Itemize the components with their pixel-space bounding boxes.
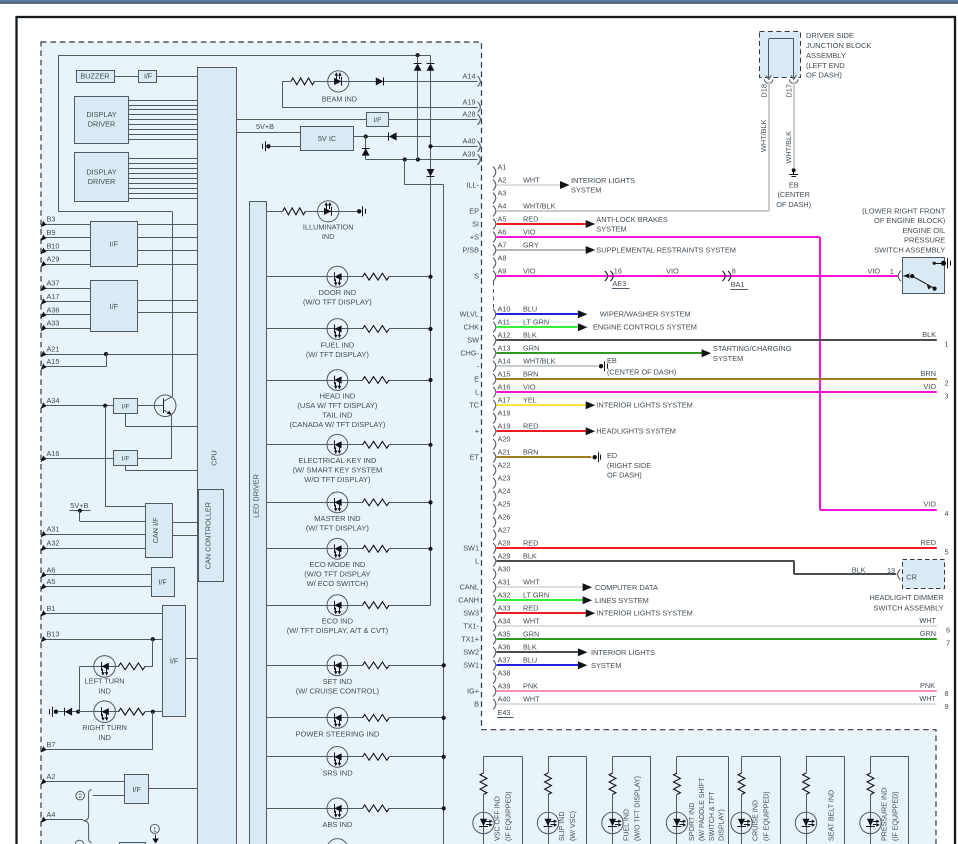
svg-text:A30: A30 bbox=[498, 565, 511, 574]
svg-text:WHT/BLK: WHT/BLK bbox=[759, 119, 768, 152]
svg-text:SWITCH & TFT: SWITCH & TFT bbox=[708, 791, 716, 841]
svg-text:DISPLAY: DISPLAY bbox=[86, 168, 116, 177]
svg-text:BLK: BLK bbox=[523, 643, 537, 652]
svg-text:CHK: CHK bbox=[464, 323, 480, 332]
svg-text:(W/ TFT DISPLAY): (W/ TFT DISPLAY) bbox=[306, 523, 369, 532]
svg-text:B9: B9 bbox=[47, 228, 56, 237]
svg-text:WHT/BLK: WHT/BLK bbox=[523, 357, 556, 366]
svg-text:TC: TC bbox=[469, 401, 479, 410]
svg-text:RED: RED bbox=[523, 422, 538, 431]
svg-text:WHT: WHT bbox=[523, 175, 540, 184]
svg-text:8: 8 bbox=[945, 689, 949, 698]
svg-text:DRIVER: DRIVER bbox=[88, 120, 116, 129]
svg-text:1: 1 bbox=[890, 267, 894, 276]
svg-text:SWITCH ASSEMBLY: SWITCH ASSEMBLY bbox=[874, 603, 944, 612]
svg-text:WHT: WHT bbox=[919, 616, 936, 625]
svg-text:SYSTEM: SYSTEM bbox=[571, 186, 601, 195]
svg-text:A31: A31 bbox=[498, 578, 511, 587]
svg-text:RED: RED bbox=[921, 538, 936, 547]
svg-text:DISPLAY: DISPLAY bbox=[86, 110, 116, 119]
svg-text:D17: D17 bbox=[784, 84, 793, 97]
svg-text:I/F: I/F bbox=[144, 74, 152, 81]
svg-text:PRESSURE IND: PRESSURE IND bbox=[881, 788, 889, 841]
svg-text:(CENTER: (CENTER bbox=[777, 190, 809, 199]
svg-text:CHG-: CHG- bbox=[460, 349, 479, 358]
svg-text:BRN: BRN bbox=[523, 370, 538, 379]
svg-text:GRN: GRN bbox=[920, 629, 936, 638]
svg-text:A21: A21 bbox=[47, 345, 60, 354]
svg-text:A4: A4 bbox=[47, 810, 56, 819]
svg-text:A29: A29 bbox=[498, 552, 511, 561]
svg-text:SW1: SW1 bbox=[463, 661, 479, 670]
svg-text:CANL: CANL bbox=[460, 583, 479, 592]
svg-text:LT GRN: LT GRN bbox=[523, 318, 549, 327]
svg-text:JUNCTION BLOCK: JUNCTION BLOCK bbox=[806, 41, 871, 50]
svg-text:13: 13 bbox=[887, 566, 895, 575]
svg-text:SRS IND: SRS IND bbox=[322, 768, 353, 777]
svg-text:I/F: I/F bbox=[110, 239, 119, 248]
svg-text:I/F: I/F bbox=[110, 302, 119, 311]
svg-text:ECO IND: ECO IND bbox=[322, 617, 354, 626]
svg-text:4: 4 bbox=[945, 509, 949, 518]
svg-text:BLK: BLK bbox=[523, 331, 537, 340]
svg-text:A18: A18 bbox=[498, 409, 511, 418]
svg-text:A7: A7 bbox=[498, 240, 507, 249]
svg-text:BLK: BLK bbox=[523, 552, 537, 561]
svg-text:MASTER IND: MASTER IND bbox=[314, 514, 361, 523]
svg-text:ED: ED bbox=[607, 451, 617, 460]
svg-text:CRUISE IND: CRUISE IND bbox=[752, 800, 760, 841]
svg-text:ILL-: ILL- bbox=[466, 180, 479, 189]
svg-text:A6: A6 bbox=[47, 565, 56, 574]
svg-text:VIO: VIO bbox=[868, 267, 881, 276]
svg-text:(W/ CRUISE CONTROL): (W/ CRUISE CONTROL) bbox=[296, 686, 380, 695]
svg-text:BLK: BLK bbox=[852, 565, 866, 574]
svg-text:A5: A5 bbox=[47, 577, 56, 586]
svg-text:(W/O TFT DISPLAY): (W/O TFT DISPLAY) bbox=[303, 298, 372, 307]
svg-text:LT GRN: LT GRN bbox=[523, 591, 549, 600]
svg-text:A29: A29 bbox=[47, 255, 60, 264]
svg-text:SLIP IND: SLIP IND bbox=[558, 812, 566, 841]
svg-text:I/F: I/F bbox=[122, 456, 130, 463]
svg-text:CAN I/F: CAN I/F bbox=[151, 517, 160, 543]
svg-text:INTERIOR LIGHTS SYSTEM: INTERIOR LIGHTS SYSTEM bbox=[596, 609, 693, 618]
svg-text:5V+B: 5V+B bbox=[70, 501, 88, 510]
svg-text:A32: A32 bbox=[47, 539, 60, 548]
svg-text:2: 2 bbox=[945, 379, 949, 388]
svg-text:GRY: GRY bbox=[523, 240, 539, 249]
svg-text:WHT/BLK: WHT/BLK bbox=[523, 201, 556, 210]
svg-text:SYSTEM: SYSTEM bbox=[596, 225, 626, 234]
svg-text:PRESSURE: PRESSURE bbox=[904, 236, 945, 245]
svg-text:A17: A17 bbox=[498, 396, 511, 405]
svg-text:A19: A19 bbox=[498, 422, 511, 431]
svg-text:I/F: I/F bbox=[132, 785, 141, 794]
svg-text:A28: A28 bbox=[463, 110, 476, 119]
svg-text:WHT: WHT bbox=[919, 694, 936, 703]
svg-text:GRN: GRN bbox=[523, 344, 539, 353]
svg-text:A15: A15 bbox=[498, 370, 511, 379]
svg-text:D18: D18 bbox=[759, 84, 768, 97]
svg-text:2: 2 bbox=[78, 793, 82, 800]
svg-text:FUEL IND: FUEL IND bbox=[623, 809, 631, 841]
svg-text:WLVL: WLVL bbox=[460, 310, 479, 319]
svg-text:B: B bbox=[474, 700, 479, 709]
svg-text:INTERIOR LIGHTS SYSTEM: INTERIOR LIGHTS SYSTEM bbox=[596, 401, 693, 410]
svg-text:P/SB: P/SB bbox=[462, 245, 479, 254]
svg-text:IG+: IG+ bbox=[467, 687, 479, 696]
svg-text:GRN: GRN bbox=[523, 630, 539, 639]
svg-text:1: 1 bbox=[153, 826, 157, 833]
svg-text:I/F: I/F bbox=[158, 577, 167, 586]
svg-text:A2: A2 bbox=[498, 175, 507, 184]
svg-text:ILLUMINATION: ILLUMINATION bbox=[303, 223, 354, 232]
svg-text:W/O TFT DISPLAY): W/O TFT DISPLAY) bbox=[304, 475, 371, 484]
svg-text:BLU: BLU bbox=[523, 656, 537, 665]
svg-text:A34: A34 bbox=[47, 396, 60, 405]
svg-text:RIGHT TURN: RIGHT TURN bbox=[82, 723, 127, 732]
svg-text:A24: A24 bbox=[498, 487, 511, 496]
svg-text:TAIL IND: TAIL IND bbox=[322, 410, 353, 419]
svg-text:+S: +S bbox=[470, 232, 479, 241]
svg-text:E: E bbox=[474, 375, 479, 384]
svg-text:A39: A39 bbox=[498, 682, 511, 691]
svg-text:SI: SI bbox=[472, 219, 479, 228]
svg-text:COMPUTER DATA: COMPUTER DATA bbox=[595, 583, 658, 592]
svg-text:INTERIOR LIGHTS: INTERIOR LIGHTS bbox=[571, 176, 635, 185]
svg-text:SW3: SW3 bbox=[463, 609, 479, 618]
svg-text:S: S bbox=[474, 271, 479, 280]
svg-text:A9: A9 bbox=[498, 266, 507, 275]
svg-text:POWER STEERING IND: POWER STEERING IND bbox=[296, 729, 380, 738]
svg-text:OF DASH): OF DASH) bbox=[806, 71, 842, 80]
svg-text:L: L bbox=[475, 388, 479, 397]
svg-text:PNK: PNK bbox=[920, 681, 935, 690]
svg-text:WHT: WHT bbox=[523, 695, 540, 704]
svg-text:CPU: CPU bbox=[210, 450, 219, 465]
svg-text:IND: IND bbox=[98, 733, 111, 742]
svg-text:(IF EQUIPPED): (IF EQUIPPED) bbox=[892, 791, 900, 841]
svg-text:A8: A8 bbox=[498, 253, 507, 262]
svg-text:CAN CONTROLLER: CAN CONTROLLER bbox=[203, 502, 212, 569]
svg-text:RED: RED bbox=[523, 604, 538, 613]
svg-text:OF DASH): OF DASH) bbox=[607, 470, 642, 479]
svg-text:A6: A6 bbox=[498, 227, 507, 236]
svg-text:SUPPLEMENTAL RESTRAINTS SYSTEM: SUPPLEMENTAL RESTRAINTS SYSTEM bbox=[596, 245, 736, 254]
svg-text:ET: ET bbox=[470, 453, 480, 462]
svg-text:(LEFT END: (LEFT END bbox=[806, 61, 845, 70]
svg-text:ASSEMBLY: ASSEMBLY bbox=[806, 51, 846, 60]
svg-text:A33: A33 bbox=[498, 604, 511, 613]
svg-text:FUEL IND: FUEL IND bbox=[320, 340, 354, 349]
svg-text:ABS IND: ABS IND bbox=[322, 820, 353, 829]
svg-text:W/ ECO SWITCH): W/ ECO SWITCH) bbox=[307, 579, 369, 588]
svg-text:A2: A2 bbox=[47, 772, 56, 781]
svg-text:A14: A14 bbox=[498, 357, 511, 366]
svg-text:ENGINE OIL: ENGINE OIL bbox=[902, 226, 945, 235]
svg-text:A36: A36 bbox=[498, 643, 511, 652]
svg-text:OF DASH): OF DASH) bbox=[776, 200, 811, 209]
svg-text:A28: A28 bbox=[498, 539, 511, 548]
svg-text:EB: EB bbox=[789, 181, 799, 190]
svg-text:A20: A20 bbox=[498, 435, 511, 444]
svg-text:LEFT TURN: LEFT TURN bbox=[85, 676, 125, 685]
svg-text:A13: A13 bbox=[498, 344, 511, 353]
svg-text:(W/ SMART KEY SYSTEM: (W/ SMART KEY SYSTEM bbox=[293, 466, 383, 475]
svg-text:YEL: YEL bbox=[523, 396, 537, 405]
svg-text:OF ENGINE BLOCK): OF ENGINE BLOCK) bbox=[874, 216, 946, 225]
svg-text:WHT/BLK: WHT/BLK bbox=[784, 131, 793, 164]
svg-text:CR: CR bbox=[906, 573, 917, 582]
svg-text:LED DRIVER: LED DRIVER bbox=[251, 474, 260, 518]
svg-text:BEAM IND: BEAM IND bbox=[322, 95, 357, 104]
svg-text:B13: B13 bbox=[47, 630, 60, 639]
svg-text:A5: A5 bbox=[498, 214, 507, 223]
svg-text:1: 1 bbox=[945, 340, 949, 349]
svg-text:RED: RED bbox=[523, 214, 538, 223]
svg-text:ECO MODE IND: ECO MODE IND bbox=[309, 560, 365, 569]
svg-text:SPORT IND: SPORT IND bbox=[688, 803, 696, 841]
svg-text:VIO: VIO bbox=[523, 227, 536, 236]
svg-text:BLK: BLK bbox=[922, 330, 936, 339]
svg-text:B3: B3 bbox=[47, 215, 56, 224]
svg-text:L: L bbox=[475, 557, 479, 566]
svg-text:16: 16 bbox=[614, 266, 622, 275]
svg-text:A37: A37 bbox=[498, 656, 511, 665]
svg-text:7: 7 bbox=[946, 639, 950, 648]
svg-text:VIO: VIO bbox=[923, 499, 936, 508]
svg-text:A36: A36 bbox=[47, 305, 60, 314]
svg-text:INTERIOR LIGHTS: INTERIOR LIGHTS bbox=[591, 648, 655, 657]
svg-text:A12: A12 bbox=[498, 331, 511, 340]
svg-text:DISPLAY): DISPLAY) bbox=[718, 809, 726, 841]
svg-text:(LOWER RIGHT FRONT: (LOWER RIGHT FRONT bbox=[862, 206, 946, 215]
svg-text:+: + bbox=[475, 427, 479, 436]
svg-text:8: 8 bbox=[732, 266, 736, 275]
svg-text:A22: A22 bbox=[498, 461, 511, 470]
svg-text:A1: A1 bbox=[498, 162, 507, 171]
svg-text:A31: A31 bbox=[47, 525, 60, 534]
svg-text:RED: RED bbox=[523, 539, 538, 548]
svg-text:VIO: VIO bbox=[523, 383, 536, 392]
svg-text:(IF EQUIPPED): (IF EQUIPPED) bbox=[505, 791, 513, 841]
svg-text:(W/ TFT DISPLAY, A/T & CVT): (W/ TFT DISPLAY, A/T & CVT) bbox=[287, 626, 389, 635]
svg-text:A4: A4 bbox=[498, 201, 507, 210]
svg-text:IND: IND bbox=[98, 686, 111, 695]
svg-text:DRIVER SIDE: DRIVER SIDE bbox=[806, 31, 854, 40]
svg-text:A33: A33 bbox=[47, 318, 60, 327]
svg-text:5V IC: 5V IC bbox=[318, 134, 336, 143]
svg-text:SEAT BELT IND: SEAT BELT IND bbox=[828, 790, 836, 841]
svg-text:A38: A38 bbox=[498, 669, 511, 678]
svg-text:(CANADA W/ TFT DISPLAY): (CANADA W/ TFT DISPLAY) bbox=[289, 420, 385, 429]
svg-text:5: 5 bbox=[945, 548, 949, 557]
svg-text:A35: A35 bbox=[498, 630, 511, 639]
svg-text:A26: A26 bbox=[498, 513, 511, 522]
svg-text:(W/ VSC): (W/ VSC) bbox=[569, 811, 577, 841]
svg-text:BUZZER: BUZZER bbox=[80, 72, 109, 81]
svg-text:A11: A11 bbox=[498, 318, 510, 327]
svg-text:I/F: I/F bbox=[170, 657, 179, 666]
svg-text:BA1: BA1 bbox=[731, 280, 745, 289]
svg-text:B7: B7 bbox=[47, 740, 56, 749]
svg-text:SYSTEM: SYSTEM bbox=[713, 354, 743, 363]
svg-text:ELECTRICAL KEY IND: ELECTRICAL KEY IND bbox=[298, 456, 377, 465]
svg-text:(USA W/ TFT DISPLAY): (USA W/ TFT DISPLAY) bbox=[297, 401, 378, 410]
svg-text:A27: A27 bbox=[498, 526, 511, 535]
svg-text:HEADLIGHT DIMMER: HEADLIGHT DIMMER bbox=[869, 593, 943, 602]
svg-text:SW2: SW2 bbox=[463, 648, 479, 657]
svg-text:WHT: WHT bbox=[523, 617, 540, 626]
svg-text:HEAD IND: HEAD IND bbox=[319, 391, 355, 400]
svg-text:SYSTEM: SYSTEM bbox=[591, 661, 621, 670]
svg-text:A15: A15 bbox=[47, 357, 60, 366]
svg-text:TX1+: TX1+ bbox=[461, 635, 479, 644]
svg-text:I/F: I/F bbox=[374, 117, 382, 124]
svg-text:A21: A21 bbox=[498, 448, 511, 457]
svg-text:9: 9 bbox=[945, 702, 949, 711]
svg-text:A23: A23 bbox=[498, 474, 511, 483]
svg-text:VIO: VIO bbox=[923, 382, 936, 391]
svg-text:VSC OFF IND: VSC OFF IND bbox=[494, 796, 502, 841]
svg-text:DOOR IND: DOOR IND bbox=[319, 288, 357, 297]
svg-text:SET IND: SET IND bbox=[323, 677, 353, 686]
svg-text:(IF EQUIPPED): (IF EQUIPPED) bbox=[763, 791, 771, 841]
svg-text:PNK: PNK bbox=[523, 682, 538, 691]
svg-text:A19: A19 bbox=[463, 97, 476, 106]
svg-text:(RIGHT SIDE: (RIGHT SIDE bbox=[607, 461, 651, 470]
svg-text:SW: SW bbox=[467, 336, 479, 345]
svg-text:WHT: WHT bbox=[523, 578, 540, 587]
svg-text:EP: EP bbox=[469, 206, 479, 215]
svg-text:(W/O TFT DISPLAY): (W/O TFT DISPLAY) bbox=[634, 776, 642, 841]
svg-text:(W/O TFT DISPLAY: (W/O TFT DISPLAY bbox=[304, 570, 370, 579]
svg-text:A40: A40 bbox=[498, 695, 511, 704]
svg-text:5V+B: 5V+B bbox=[256, 122, 274, 131]
svg-text:A16: A16 bbox=[498, 383, 511, 392]
svg-text:E43: E43 bbox=[498, 708, 511, 717]
svg-text:B10: B10 bbox=[47, 241, 60, 250]
svg-text:VIO: VIO bbox=[523, 266, 536, 275]
svg-text:(W/ TFT DISPLAY): (W/ TFT DISPLAY) bbox=[306, 350, 369, 359]
svg-text:BRN: BRN bbox=[523, 448, 538, 457]
svg-text:6: 6 bbox=[946, 626, 950, 635]
svg-text:SW1: SW1 bbox=[463, 544, 479, 553]
svg-text:(W/ PADDLE SHIFT: (W/ PADDLE SHIFT bbox=[698, 777, 706, 841]
svg-text:A40: A40 bbox=[463, 137, 476, 146]
svg-text:A39: A39 bbox=[463, 150, 476, 159]
svg-text:A3: A3 bbox=[498, 188, 507, 197]
svg-text:DRIVER: DRIVER bbox=[88, 177, 116, 186]
svg-text:A17: A17 bbox=[47, 292, 60, 301]
svg-text:A37: A37 bbox=[47, 278, 60, 287]
svg-text:LINES SYSTEM: LINES SYSTEM bbox=[595, 596, 649, 605]
svg-text:A16: A16 bbox=[47, 449, 60, 458]
svg-text:B1: B1 bbox=[47, 604, 56, 613]
svg-text:WIPER/WASHER SYSTEM: WIPER/WASHER SYSTEM bbox=[600, 310, 691, 319]
svg-text:3: 3 bbox=[945, 392, 949, 401]
svg-text:A14: A14 bbox=[463, 72, 476, 81]
svg-text:BRN: BRN bbox=[921, 369, 936, 378]
svg-text:CANH: CANH bbox=[458, 596, 479, 605]
svg-text:STARTING/CHARGING: STARTING/CHARGING bbox=[713, 344, 792, 353]
svg-text:BLU: BLU bbox=[523, 305, 537, 314]
svg-text:HEADLIGHTS SYSTEM: HEADLIGHTS SYSTEM bbox=[596, 427, 676, 436]
svg-text:I/F: I/F bbox=[122, 403, 130, 410]
svg-text:A25: A25 bbox=[498, 500, 511, 509]
svg-text:(CENTER OF DASH): (CENTER OF DASH) bbox=[607, 367, 676, 376]
svg-text:VIO: VIO bbox=[666, 266, 679, 275]
svg-text:AE3: AE3 bbox=[612, 279, 626, 288]
svg-text:ANTI-LOCK BRAKES: ANTI-LOCK BRAKES bbox=[596, 215, 668, 224]
svg-text:EB: EB bbox=[607, 356, 617, 365]
svg-text:SWITCH ASSEMBLY: SWITCH ASSEMBLY bbox=[874, 246, 945, 255]
svg-text:A32: A32 bbox=[498, 591, 511, 600]
svg-text:A34: A34 bbox=[498, 617, 511, 626]
svg-text:ENGINE CONTROLS SYSTEM: ENGINE CONTROLS SYSTEM bbox=[593, 323, 697, 332]
svg-text:TX1-: TX1- bbox=[463, 622, 479, 631]
svg-text:IND: IND bbox=[322, 232, 335, 241]
svg-text:A10: A10 bbox=[498, 305, 511, 314]
